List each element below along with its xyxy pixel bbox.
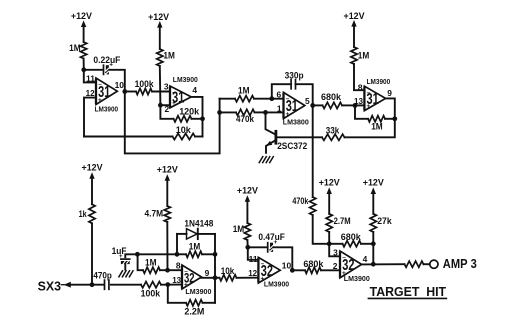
resistor 470k (U1c out to U2c pin 3, vertical) — [292, 196, 329, 244]
wire U1b pin 2 — [160, 104, 170, 106]
resistor 10k (U1b out to U1a pin 12) — [84, 125, 203, 140]
wire U1b output down — [191, 97, 202, 137]
resistor 680k (U2c feedback) — [329, 232, 373, 247]
node J (U1d feedback/output junction) — [392, 116, 397, 121]
wire feedback right side (vertical) — [214, 254, 216, 302]
resistor (output series, unlabeled) — [405, 261, 430, 267]
resistor 680k (U1c out to U1d pin 13) — [313, 92, 355, 109]
capacitor 330p (U1c feedback) — [272, 70, 313, 105]
svg-text:32: 32 — [184, 271, 195, 286]
wire U1a output bus (down and right) — [125, 92, 220, 154]
resistor 100k (input to U2a pin 13) — [111, 282, 182, 299]
svg-text:470p: 470p — [93, 271, 112, 281]
svg-text:27k: 27k — [377, 216, 392, 226]
wire U1d pin 13 — [355, 104, 364, 106]
svg-text:1M: 1M — [238, 85, 250, 95]
svg-text:+: + — [119, 254, 123, 260]
svg-text:1M: 1M — [233, 224, 245, 234]
wire 680k feedback down — [372, 244, 374, 264]
resistor 4.7M (U2a pin 8 bias, vertical) — [145, 206, 171, 270]
wire U2c pin 3 — [329, 244, 340, 256]
svg-text:+12V: +12V — [319, 178, 341, 189]
svg-text:10: 10 — [282, 261, 292, 271]
svg-text:8: 8 — [176, 261, 181, 271]
svg-text:680k: 680k — [341, 232, 362, 242]
svg-text:+12V: +12V — [344, 11, 366, 22]
power +12V supply (op-amp U1a bias) — [71, 11, 93, 42]
svg-text:31: 31 — [286, 98, 298, 115]
capacitor 1uF (to ground) — [112, 246, 138, 270]
resistor 1M (U2a feedback, rail) — [177, 241, 215, 257]
node V (U2c output) — [371, 262, 376, 267]
wire U1c pin 6 — [272, 98, 284, 100]
wire U2c output — [362, 263, 405, 265]
svg-text:0.22uF: 0.22uF — [93, 55, 120, 65]
resistor 2.2M (U2a feedback) — [168, 285, 215, 317]
svg-text:31: 31 — [172, 90, 184, 107]
wire U2b pin 11 — [248, 247, 259, 259]
resistor 120k (U1b feedback) — [160, 105, 202, 122]
power +12V supply (U2b bias) — [237, 185, 259, 223]
op-amp U1d (LM3900 section 31, pins 8/13/9) — [354, 77, 392, 110]
node I (U1d pin 13 node) — [353, 103, 358, 108]
wire U1d output (right, down, left) — [345, 98, 395, 137]
svg-text:1M: 1M — [371, 121, 383, 131]
op-amp U1c (LM3900 section 31, pins 6/1/5) — [277, 89, 310, 126]
wire U1c output down (crosses base wire) — [312, 105, 314, 197]
terminal AMP 3 (output) — [430, 256, 477, 271]
op-amp U1a (LM3900 section 31, pins 11/12/10) — [86, 73, 125, 113]
svg-text:LM3800: LM3800 — [283, 118, 309, 127]
svg-text:1M: 1M — [358, 50, 370, 60]
resistor 1M (1uF node to U2a pin 8) — [138, 254, 182, 273]
node S (U2b output) — [290, 268, 295, 273]
svg-text:SX3: SX3 — [38, 279, 61, 294]
svg-text:9: 9 — [205, 268, 210, 278]
op-amp U1b (LM3900 section 31, pins 3/2/4) — [164, 75, 198, 114]
svg-text:LM3900: LM3900 — [185, 287, 211, 296]
label SX3 (input) — [38, 279, 71, 294]
svg-text:9: 9 — [387, 88, 392, 98]
svg-text:8: 8 — [358, 82, 363, 92]
svg-text:LM3900: LM3900 — [367, 77, 391, 86]
ground (Q1 emitter) — [259, 157, 273, 163]
resistor 1M (U1d pin 8 bias, vertical) — [351, 47, 369, 90]
svg-text:TARGET HIT: TARGET HIT — [370, 284, 447, 299]
svg-text:100k: 100k — [141, 288, 161, 298]
resistor 100k (U1a out to U1b pin 3) — [125, 79, 170, 94]
svg-text:2SC372: 2SC372 — [277, 141, 307, 151]
svg-text:0.47uF: 0.47uF — [258, 232, 285, 242]
svg-text:120k: 120k — [179, 106, 200, 116]
svg-text:680k: 680k — [303, 259, 324, 269]
svg-text:11: 11 — [249, 254, 258, 264]
resistor 27k (U2c output pull-up, vertical) — [370, 214, 392, 244]
node P (diode box right) — [213, 252, 218, 257]
resistor 1M (bus to U1c pin 6) — [220, 85, 272, 101]
svg-text:10: 10 — [115, 80, 125, 90]
capacitor 470p (input coupling) — [93, 271, 112, 290]
node R (U2b pin 11 node) — [245, 245, 250, 250]
node U (27k/680k node) — [371, 241, 376, 246]
svg-text:+12V: +12V — [82, 162, 104, 173]
node L (1uF node) — [135, 252, 140, 257]
svg-text:3: 3 — [164, 82, 169, 92]
wire U2a output — [201, 277, 215, 279]
svg-text:470k: 470k — [292, 196, 309, 206]
svg-text:2: 2 — [333, 261, 338, 271]
svg-text:AMP 3: AMP 3 — [443, 256, 477, 271]
node Q (U2a output) — [213, 275, 218, 280]
wire U1a pin 12 feedback — [84, 98, 96, 137]
wire node A to pin 11 — [84, 70, 96, 83]
svg-text:+12V: +12V — [157, 164, 179, 175]
svg-text:1M: 1M — [145, 257, 157, 267]
node N (U2a pin 13 node) — [165, 282, 170, 287]
node G (U1c pin 1 / Q1 collector node) — [263, 110, 268, 115]
node B (U1b pin 2 node) — [158, 103, 163, 108]
svg-text:+12V: +12V — [71, 11, 93, 22]
svg-text:10k: 10k — [221, 266, 235, 276]
wire SX3 input line — [71, 284, 104, 286]
op-amp U2c (LM3900 section 32, pins 3/2/4) — [333, 247, 370, 283]
node E (470k tap on bus) — [217, 110, 222, 115]
svg-text:330p: 330p — [285, 70, 304, 80]
svg-text:4.7M: 4.7M — [145, 208, 164, 218]
resistor 2.7M (U2c pin 3 bias, vertical) — [326, 214, 351, 244]
resistor 10k (U2a out to U2b pin 12) — [215, 266, 258, 281]
wire 1uF node rail — [137, 253, 177, 255]
svg-text:100k: 100k — [135, 79, 155, 89]
svg-text:5: 5 — [305, 96, 310, 106]
node H (U1c output) — [310, 103, 315, 108]
svg-text:1M: 1M — [69, 43, 81, 53]
svg-text:2.2M: 2.2M — [184, 306, 204, 316]
resistor 33k (U1d out to Q1 base) — [277, 125, 344, 140]
power +12V supply (U2c output pull-up) — [363, 178, 385, 214]
svg-text:1k: 1k — [79, 209, 88, 219]
node T (U2c pin 3 node) — [327, 241, 332, 246]
label TARGET HIT — [368, 284, 446, 299]
node M (U2a pin 8 node) — [165, 268, 170, 273]
op-amp U2a (LM3900 section 32, pins 8/13/9) — [172, 261, 211, 296]
svg-text:LM3900: LM3900 — [95, 105, 119, 114]
capacitor 0.47uF (U2b feedback) — [248, 232, 292, 270]
node C (U1a output) — [122, 89, 127, 94]
resistor 1k (SX3 pull-up, vertical) — [79, 204, 96, 284]
svg-text:3: 3 — [333, 247, 338, 257]
svg-text:680k: 680k — [321, 92, 342, 102]
resistor 680k (U2b out to U2c pin 2) — [292, 259, 340, 274]
power +12V supply (SX3 pull-up) — [82, 162, 104, 204]
svg-text:1N4148: 1N4148 — [184, 218, 213, 228]
power +12V supply (U2a bias) — [157, 164, 179, 206]
svg-text:33k: 33k — [326, 125, 340, 135]
power +12V supply (op-amp U1d bias) — [344, 11, 366, 47]
resistor 1M (U1b pin 2 bias, vertical) — [157, 49, 175, 105]
svg-text:31: 31 — [98, 84, 110, 101]
svg-text:12: 12 — [248, 268, 257, 278]
node D (120k/output junction) — [200, 116, 205, 121]
capacitor 0.22uF (U1a integrator feedback) — [84, 55, 125, 91]
svg-text:LM3900: LM3900 — [173, 75, 198, 84]
resistor 1M (U1a input bias, vertical) — [69, 42, 87, 70]
svg-text:10k: 10k — [176, 125, 192, 135]
svg-text:32: 32 — [342, 257, 354, 274]
svg-text:32: 32 — [261, 263, 273, 280]
svg-text:4: 4 — [192, 85, 197, 95]
power +12V supply (U2c pin 3 bias) — [319, 178, 341, 214]
node F (U1c pin 6 node) — [269, 96, 274, 101]
diode D1 1N4148 (U2a feedback) — [177, 218, 215, 254]
svg-text:470k: 470k — [236, 114, 255, 124]
svg-text:LM3900: LM3900 — [344, 274, 370, 283]
ground (1uF) — [119, 271, 133, 277]
node A (junction of 1M / 0.22uF / pin 11) — [81, 67, 86, 72]
svg-text:4: 4 — [363, 254, 368, 264]
svg-text:1M: 1M — [189, 241, 201, 251]
svg-text:1M: 1M — [163, 51, 175, 61]
wire U1c pin 1 — [266, 111, 284, 113]
svg-text:+12V: +12V — [363, 178, 385, 189]
resistor 1M (U2b pin 11 bias, vertical) — [233, 223, 251, 247]
svg-text:+12V: +12V — [148, 12, 170, 23]
svg-text:LM3900: LM3900 — [264, 280, 289, 289]
resistor 1M (U1d feedback) — [355, 105, 395, 131]
node O (diode box left) — [175, 252, 180, 257]
svg-text:2.7M: 2.7M — [334, 216, 351, 226]
op-amp U2b (LM3900 section 32, pins 11/12/10) — [248, 254, 291, 288]
resistor 470k (bus to U1c pin 1) — [220, 109, 266, 124]
svg-text:+12V: +12V — [237, 185, 259, 196]
svg-text:13: 13 — [172, 275, 181, 285]
power +12V supply (op-amp U1b bias) — [148, 12, 170, 49]
node K (SX3 junction) — [90, 282, 95, 287]
svg-text:31: 31 — [367, 91, 379, 108]
transistor Q1 2SC372 (NPN) — [266, 112, 308, 152]
